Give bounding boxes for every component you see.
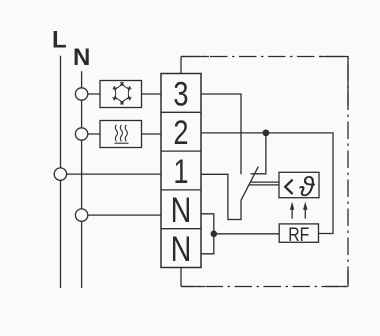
svg-text:2: 2 [173, 113, 188, 152]
svg-text:N: N [73, 44, 90, 71]
svg-text:RF: RF [288, 224, 309, 246]
svg-text:1: 1 [173, 152, 188, 191]
svg-text:3: 3 [173, 74, 188, 113]
svg-text:L: L [52, 27, 67, 54]
svg-text:N: N [171, 229, 192, 268]
svg-text:ϑ: ϑ [299, 171, 316, 202]
svg-text:N: N [171, 190, 192, 229]
